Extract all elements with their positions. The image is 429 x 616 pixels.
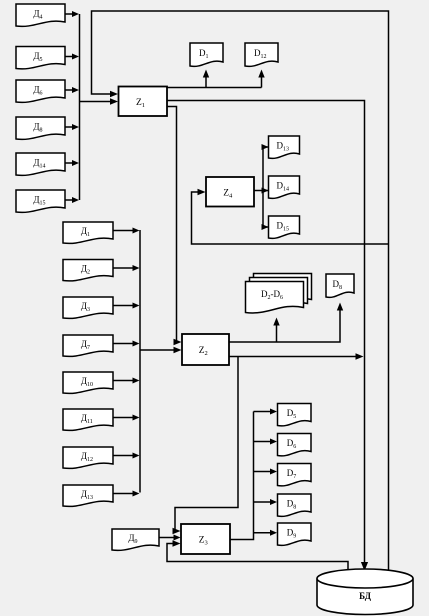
svg-text:9: 9 — [293, 534, 296, 540]
wire Д7 to bus — [113, 343, 134, 345]
wire branch to D5 — [254, 411, 271, 413]
input document Д14 — [16, 153, 65, 175]
arrowhead into Z1 upper input — [110, 91, 118, 97]
output document D15 — [269, 216, 300, 238]
arrowhead Д1 to bus — [133, 228, 140, 234]
svg-text:12: 12 — [261, 54, 267, 60]
process box Z4 — [206, 177, 254, 207]
wire Д3 to bus — [113, 305, 134, 307]
output document D1 — [190, 43, 223, 66]
wire branch to D9 — [254, 532, 271, 534]
arrowhead into D9 — [270, 530, 277, 536]
output document D14 — [269, 176, 300, 198]
svg-text:15: 15 — [283, 227, 289, 233]
input document Д2 — [63, 260, 113, 281]
output document D5 — [278, 404, 312, 426]
svg-text:7: 7 — [293, 474, 296, 480]
arrowhead Д10 to bus — [133, 378, 140, 384]
wire bus to Z1 lower input — [80, 101, 112, 103]
wire Д12 to bus — [113, 455, 134, 457]
input document Д15 — [16, 190, 65, 212]
input document Д3 — [63, 297, 113, 318]
output document D12 — [245, 43, 278, 66]
svg-text:1: 1 — [142, 102, 145, 109]
wire branch to D13 — [263, 146, 268, 148]
wire Z1 output right then down to database БД — [167, 101, 365, 564]
process box Z3 — [181, 524, 230, 554]
input document Д5 — [16, 47, 65, 69]
wire branch to D15 — [263, 226, 268, 228]
wire Д14 to bus — [65, 162, 73, 164]
wire Д2 to bus — [113, 267, 134, 269]
arrowhead Д8 to bus — [72, 124, 79, 130]
wire feedback from database БД up right side, across top, down to Z1 input — [92, 11, 389, 570]
svg-text:9: 9 — [135, 539, 138, 545]
wire Z2 output down and into Z3 upper input — [174, 357, 238, 532]
svg-text:8: 8 — [40, 128, 43, 134]
arrowhead Д7 to bus — [133, 341, 140, 347]
svg-text:14: 14 — [283, 187, 289, 193]
wire branch to D7 — [254, 471, 271, 473]
process box Z2 — [182, 334, 229, 365]
arrowhead Д12 to bus — [133, 453, 140, 459]
arrowhead Д3 to bus — [133, 303, 140, 309]
wire branch up to D12 — [261, 76, 263, 88]
input document Д13 — [63, 485, 113, 506]
arrowhead into Z3 lower input — [173, 540, 181, 546]
svg-text:2: 2 — [87, 270, 90, 276]
arrowhead Д13 to bus — [133, 491, 140, 497]
arrowhead into Z1 lower input — [110, 98, 118, 104]
input document Д4 — [16, 4, 65, 26]
svg-text:11: 11 — [87, 419, 93, 425]
arrowhead Д4 to bus — [72, 11, 79, 17]
wire Д1 to bus — [113, 230, 134, 232]
wire bus to Z2 lower input — [140, 349, 175, 351]
svg-text:7: 7 — [87, 345, 90, 351]
arrowhead into D5 — [270, 409, 277, 415]
input document Д9 — [112, 529, 159, 550]
wire Z4 output — [254, 190, 263, 192]
wire Д4 to bus — [65, 13, 73, 15]
wire Z2 output to D8 document — [229, 308, 340, 342]
wire input bus of documents Д1-Д13 group — [139, 230, 141, 493]
arrowhead into БД line — [356, 353, 364, 359]
wire Z1 output down to Z2 upper input — [167, 107, 177, 343]
arrowhead into D7 — [270, 469, 277, 475]
svg-text:5: 5 — [40, 57, 43, 63]
process box Z1 — [119, 87, 168, 117]
svg-text:4: 4 — [40, 15, 43, 21]
svg-text:13: 13 — [283, 147, 289, 153]
wire Д5 to bus — [65, 56, 73, 58]
output document D8 — [326, 274, 354, 297]
svg-text:14: 14 — [40, 164, 46, 170]
svg-text:10: 10 — [87, 382, 93, 388]
wire Z1 output to documents D1 and D12 — [167, 87, 262, 89]
arrowhead into БД top — [361, 562, 368, 571]
wire Д13 to bus — [113, 493, 134, 495]
input document Д6 — [16, 80, 65, 102]
arrowhead Д5 to bus — [72, 54, 79, 60]
wire from database БД into Z3 lower input — [167, 544, 348, 573]
wire Д8 to bus — [65, 126, 73, 128]
arrowhead into D1 — [203, 70, 209, 78]
wire Z4 output bus vertical — [262, 147, 264, 227]
arrowhead into D14 — [262, 188, 269, 194]
svg-text:12: 12 — [87, 457, 93, 463]
arrowhead Д2 to bus — [133, 265, 140, 271]
wire Д11 to bus — [113, 417, 134, 419]
wire branch up to D1 — [205, 76, 207, 88]
svg-text:3: 3 — [205, 540, 208, 547]
wire Д10 to bus — [113, 380, 134, 382]
wire Д9 to Z3 — [159, 537, 174, 539]
arrowhead into D8 — [337, 303, 343, 311]
arrowhead Д14 to bus — [72, 160, 79, 166]
svg-text:5: 5 — [293, 414, 296, 420]
arrowhead into D8 — [270, 499, 277, 505]
arrowhead into Z4 input — [198, 189, 206, 195]
svg-text:6: 6 — [293, 444, 296, 450]
input document Д12 — [63, 447, 113, 468]
input document Д7 — [63, 335, 113, 356]
input document Д1 — [63, 222, 113, 243]
arrowhead Д6 to bus — [72, 87, 79, 93]
wire Z2 output to database line — [229, 356, 357, 358]
arrowhead Д11 to bus — [133, 415, 140, 421]
svg-text:8: 8 — [339, 285, 342, 291]
svg-text:6: 6 — [40, 91, 43, 97]
wire Д6 to bus — [65, 89, 73, 91]
wire branch up into stack D2-D6 — [276, 324, 278, 342]
input document Д10 — [63, 372, 113, 393]
wire input bus of documents Д4-Д15 group — [79, 14, 81, 200]
arrowhead Д15 to bus — [72, 197, 79, 203]
svg-text:БД: БД — [359, 591, 372, 601]
arrowhead into D13 — [262, 144, 269, 150]
output document D7 — [278, 464, 312, 486]
output documents stack D2-D6 — [246, 274, 312, 313]
wire from БД feedback line to Z4 input — [192, 192, 389, 244]
svg-text:13: 13 — [87, 495, 93, 501]
output document D9 — [278, 523, 312, 545]
svg-text:1: 1 — [206, 54, 209, 60]
arrowhead into Z2 lower input — [174, 347, 182, 353]
output document D8 — [278, 494, 312, 516]
wire branch to D6 — [254, 441, 271, 443]
svg-text:15: 15 — [40, 201, 46, 207]
wire Д15 to bus — [65, 199, 73, 201]
output document D13 — [269, 136, 300, 158]
output document D6 — [278, 434, 312, 456]
arrowhead Д9 into Z3 — [174, 535, 181, 541]
arrowhead into D12 — [258, 70, 264, 78]
arrowhead into D15 — [262, 224, 269, 230]
arrowhead into D2-D6 stack — [273, 318, 279, 326]
input document Д11 — [63, 409, 113, 430]
arrowhead into D6 — [270, 439, 277, 445]
svg-text:1: 1 — [87, 232, 90, 238]
svg-text:3: 3 — [87, 307, 90, 313]
input document Д8 — [16, 117, 65, 139]
svg-text:2: 2 — [205, 350, 208, 357]
arrowhead into Z2 upper input — [174, 339, 182, 345]
database cylinder БД — [317, 569, 413, 615]
svg-text:8: 8 — [293, 505, 296, 511]
wire branch to D8 — [254, 501, 271, 503]
arrowhead into Z3 upper input — [173, 528, 181, 534]
wire branch to D14 — [263, 190, 268, 192]
wire Z3 output bus — [230, 412, 254, 540]
